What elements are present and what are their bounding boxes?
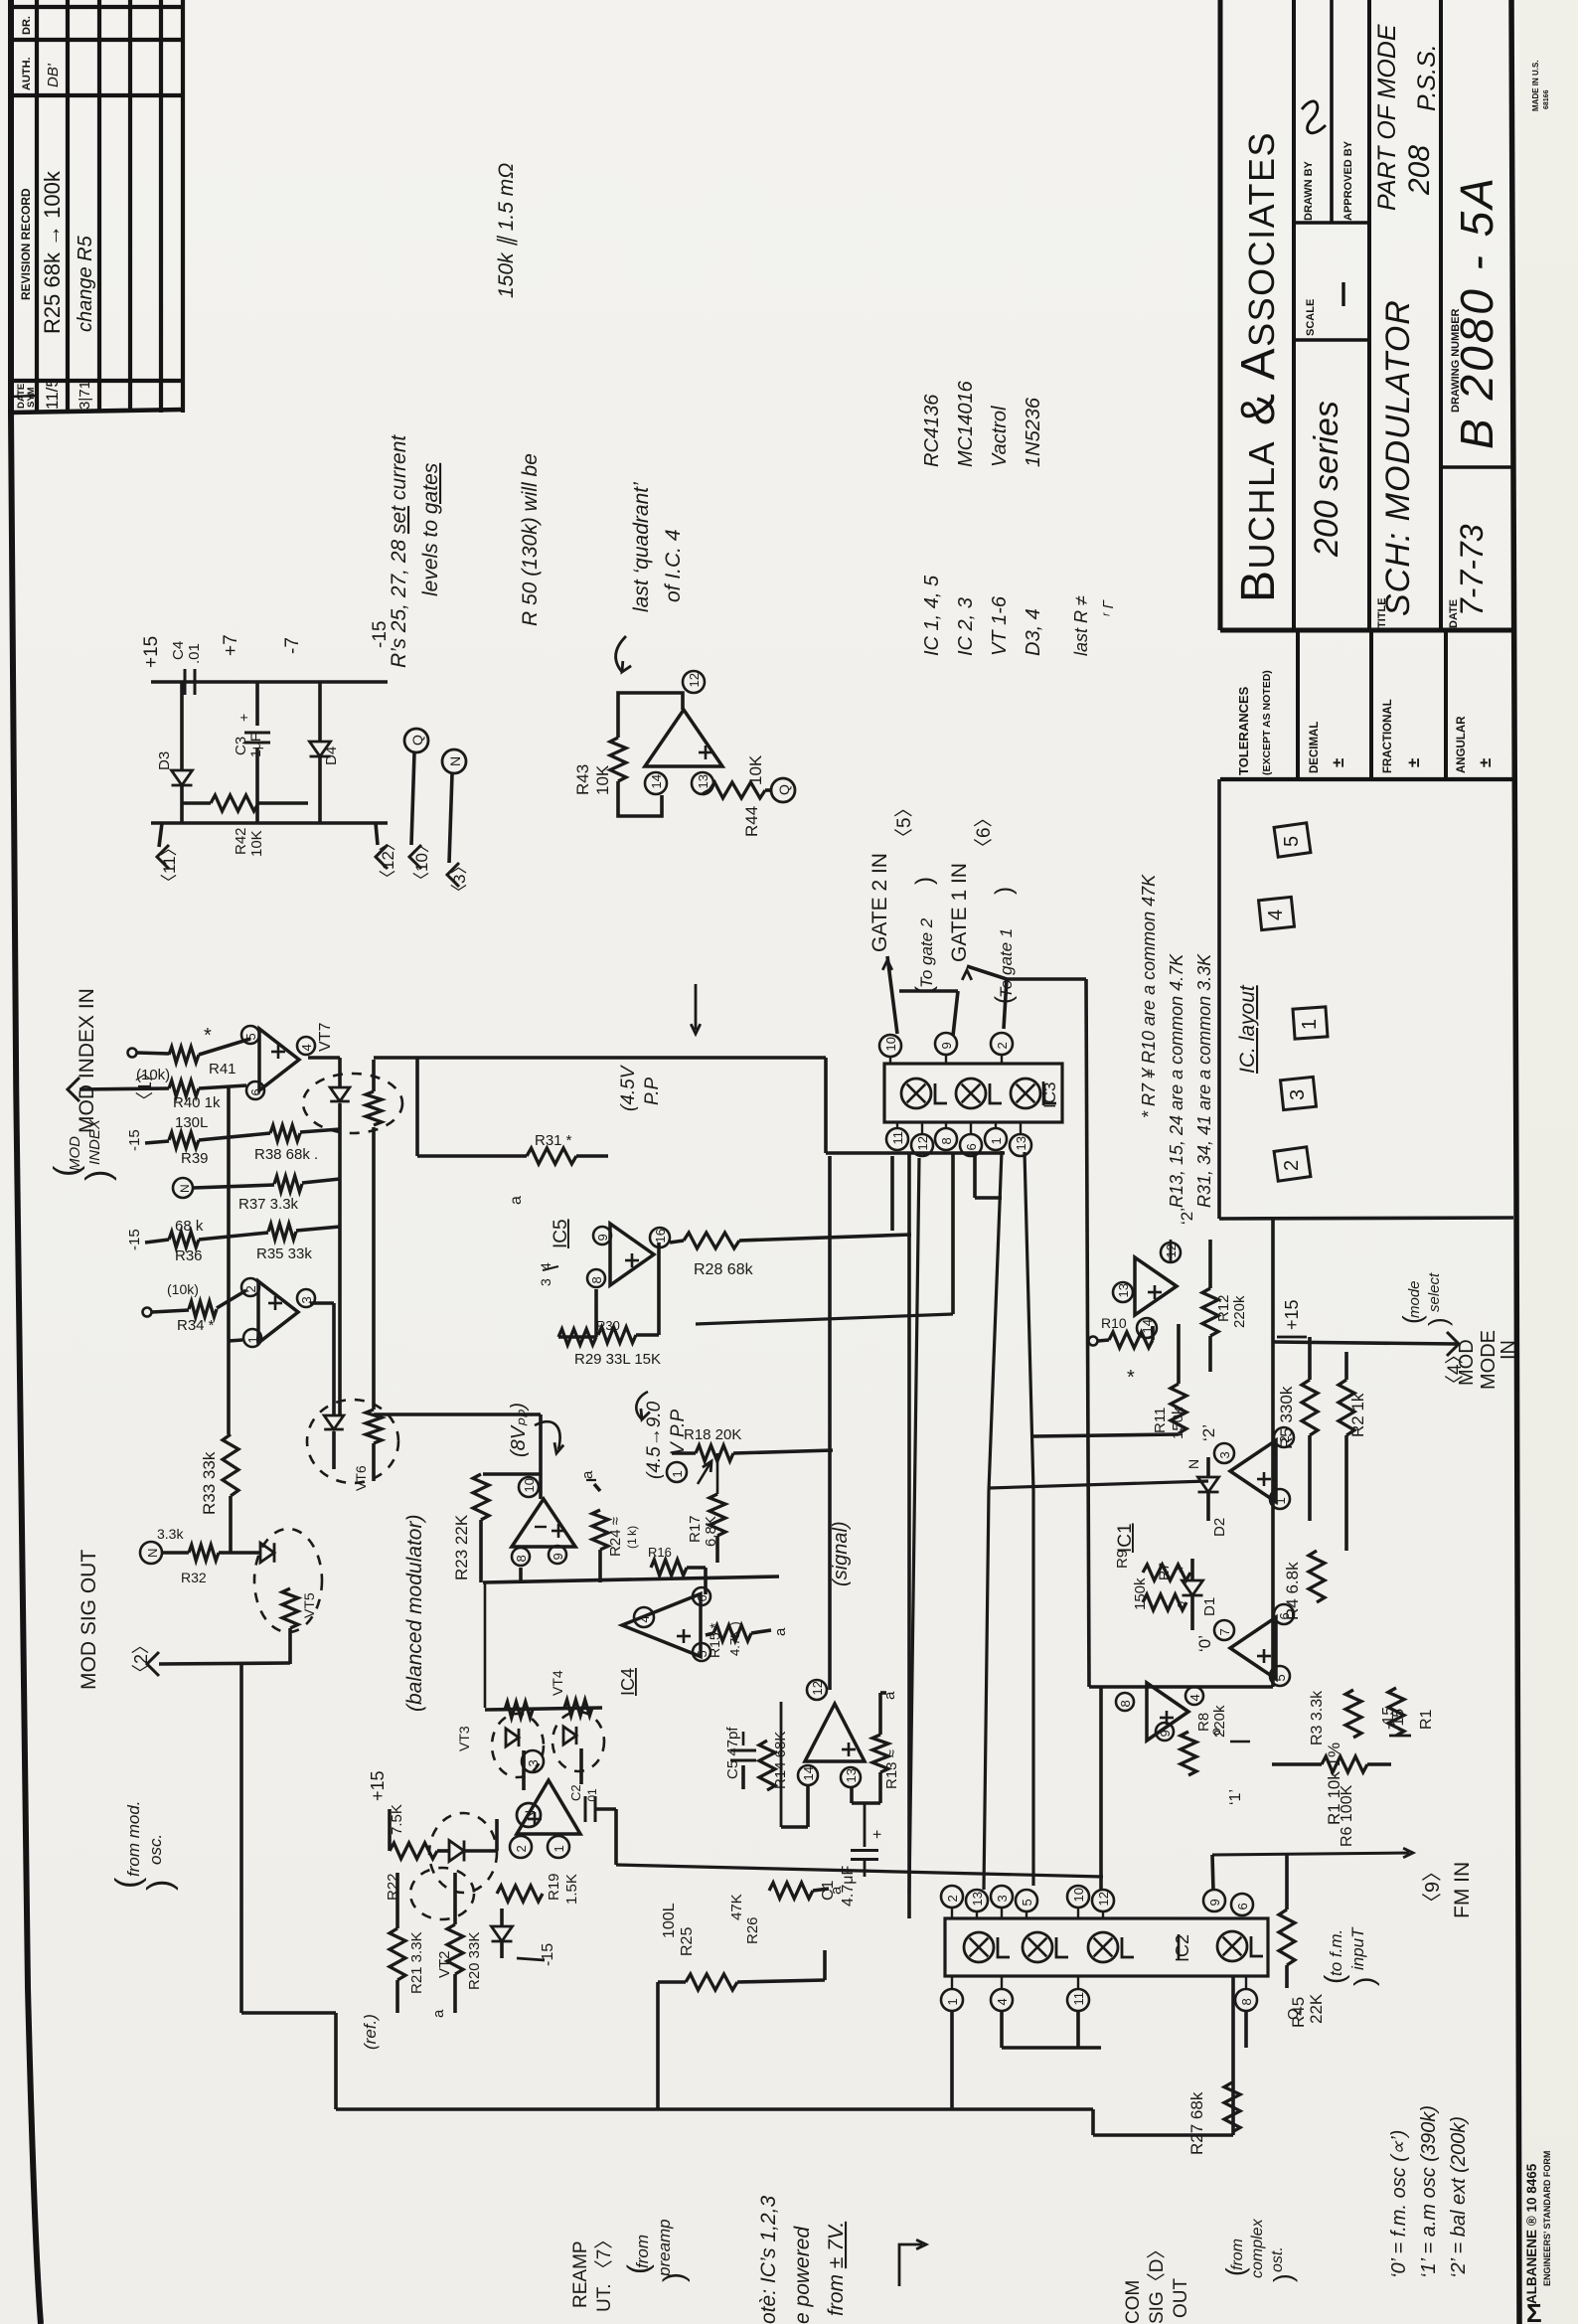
svg-text:D4: D4 [323,747,340,765]
svg-text:6: 6 [248,1088,263,1095]
svg-text:R25: R25 [679,1927,696,1956]
svg-text:3: 3 [1217,1451,1232,1458]
svg-text:R6 100K: R6 100K [1339,1784,1355,1847]
svg-text:4: 4 [1265,910,1287,920]
svg-text:22K: 22K [1307,1993,1326,2024]
svg-text:R20 33K: R20 33K [466,1932,483,1990]
svg-text:2: 2 [1281,1160,1303,1171]
svg-text:-15: -15 [540,1943,556,1966]
svg-text:-15: -15 [126,1229,143,1250]
svg-text:VT5: VT5 [301,1592,317,1618]
svg-text:‘0’: ‘0’ [1195,1635,1214,1652]
svg-text:R24 ≈: R24 ≈ [607,1517,624,1557]
svg-text:): ) [141,1880,179,1891]
svg-text:.01: .01 [585,1788,599,1805]
svg-text:〈2〉: 〈2〉 [131,1636,151,1682]
svg-text:R9: R9 [1114,1550,1131,1569]
svg-text:DR.: DR. [21,16,33,35]
svg-text:+: + [236,714,251,722]
svg-text:R40 1k: R40 1k [173,1094,221,1111]
svg-text:12: 12 [1096,1892,1111,1906]
svg-text:〈6〉: 〈6〉 [973,808,995,857]
svg-text:(ref.): (ref.) [361,2014,380,2050]
svg-text:ʳ Γ: ʳ Γ [1100,599,1117,616]
svg-text:(10k): (10k) [136,1067,170,1083]
svg-text:a: a [579,1470,596,1479]
svg-text:R3 3.3k: R3 3.3k [1309,1690,1326,1745]
svg-text:R18 20K: R18 20K [684,1426,741,1443]
svg-text:of I.C. 4: of I.C. 4 [662,529,685,602]
svg-text:D2: D2 [1211,1518,1228,1537]
svg-text:R13 ≈: R13 ≈ [883,1749,900,1789]
svg-text:a: a [828,1886,845,1895]
svg-text:*: * [1127,1367,1135,1389]
svg-text:AUTH.: AUTH. [21,57,33,90]
svg-text:IC1: IC1 [1115,1523,1136,1553]
svg-text:220k: 220k [1231,1295,1248,1328]
svg-text:4.7K ): 4.7K ) [727,1621,742,1656]
svg-text:6: 6 [1235,1903,1250,1909]
svg-text:‘1’ = a.m osc (390k): ‘1’ = a.m osc (390k) [1418,2105,1440,2278]
svg-text:13: 13 [696,774,710,788]
svg-text:R15 *: R15 * [707,1622,722,1658]
svg-text:3|71: 3|71 [77,381,93,410]
svg-text:±: ± [1404,758,1423,767]
svg-text:REVISION RECORD: REVISION RECORD [19,188,33,300]
svg-text:ANGULAR: ANGULAR [1456,716,1468,773]
svg-text:to f.m.: to f.m. [1327,1929,1345,1976]
svg-text:4: 4 [637,1615,652,1622]
svg-text:+15: +15 [1282,1299,1302,1330]
svg-text:10: 10 [522,1478,537,1492]
svg-text:(4.5V: (4.5V [618,1064,639,1111]
svg-text:‘2’ = bal ext (200k): ‘2’ = bal ext (200k) [1448,2116,1470,2278]
svg-text:1: 1 [1273,1497,1288,1504]
svg-text:1μF: 1μF [247,734,263,757]
svg-text:N: N [145,1549,160,1558]
svg-text:VT6: VT6 [353,1465,369,1491]
svg-text:4: 4 [995,1998,1010,2005]
svg-text:1.5K: 1.5K [563,1874,580,1905]
svg-text:IC4: IC4 [618,1668,638,1696]
svg-text:): ) [1423,1317,1453,1326]
svg-text:VT2: VT2 [436,1950,453,1978]
svg-text:change R5: change R5 [75,235,96,332]
svg-text:220k: 220k [1211,1705,1228,1738]
svg-text:+15: +15 [368,1770,388,1801]
svg-text:1: 1 [245,1336,260,1343]
svg-text:levels to gates: levels to gates [419,462,442,596]
svg-text:2: 2 [995,1042,1010,1049]
svg-text:100L: 100L [661,1903,678,1938]
svg-text:13: 13 [844,1768,859,1782]
svg-text:from: from [1229,2239,1246,2270]
svg-text:〈3〉: 〈3〉 [450,858,469,901]
svg-text:8: 8 [939,1137,954,1144]
svg-text:): ) [1268,2273,1298,2282]
svg-text:7: 7 [1217,1628,1232,1635]
svg-text:8: 8 [1239,1998,1254,2005]
svg-text:* R7 ¥ R10 are a common 47K: * R7 ¥ R10 are a common 47K [1139,874,1159,1118]
svg-text:D3: D3 [156,751,173,770]
svg-text:4: 4 [1187,1694,1202,1701]
svg-text:R31 *: R31 * [535,1132,572,1149]
svg-text:9: 9 [1207,1899,1222,1906]
svg-text:PART OF MODE: PART OF MODE [1373,24,1401,211]
svg-text:R7: R7 [1156,1563,1172,1580]
svg-text:5: 5 [243,1033,258,1040]
svg-text:): ) [991,887,1018,895]
svg-text:RC4136: RC4136 [921,394,943,467]
svg-text:13: 13 [970,1892,985,1906]
svg-text:DB': DB' [45,63,62,87]
svg-text:FRACTIONAL: FRACTIONAL [1382,699,1394,773]
svg-text:+: + [869,1830,886,1839]
svg-text:VT3: VT3 [456,1726,472,1751]
svg-text:IC 2, 3: IC 2, 3 [955,597,977,656]
svg-text:IC 1, 4, 5: IC 1, 4, 5 [921,575,943,656]
svg-text:3: 3 [995,1895,1010,1902]
svg-text:R39: R39 [181,1150,209,1167]
svg-text:R17: R17 [687,1515,704,1543]
svg-text:6: 6 [1277,1612,1292,1619]
svg-text:〈11〉: 〈11〉 [160,839,179,891]
svg-text:〈5〉: 〈5〉 [893,798,915,847]
svg-text:1: 1 [670,1470,685,1477]
svg-text:R21 3.3K: R21 3.3K [408,1931,425,1994]
svg-text:208: 208 [1403,145,1436,196]
svg-text:last R ≠: last R ≠ [1071,595,1091,656]
svg-text:7.5K: 7.5K [389,1804,405,1835]
svg-text:1: 1 [945,1998,960,2005]
svg-text:R13, 15, 24 are a common 4: R13, 15, 24 are a common 4.7K [1167,953,1186,1208]
svg-text:MC14016: MC14016 [955,380,977,467]
svg-text:1: 1 [989,1137,1004,1144]
svg-text:N: N [1185,1459,1201,1469]
svg-text:7-7-73: 7-7-73 [1454,524,1490,616]
svg-text:INDEX: INDEX [86,1118,103,1165]
svg-text:9: 9 [1158,1730,1173,1737]
svg-text:10: 10 [1071,1888,1086,1902]
svg-text:8: 8 [1118,1700,1133,1707]
svg-text:10K: 10K [593,764,612,795]
svg-text:last ‘quadrant’: last ‘quadrant’ [630,482,653,612]
svg-text:*: * [204,1025,212,1047]
svg-text:2: 2 [514,1845,529,1852]
svg-text:R34 *: R34 * [177,1317,215,1334]
svg-text:a: a [430,2009,447,2018]
svg-text:select: select [1426,1272,1443,1312]
svg-text:6: 6 [695,1594,710,1601]
svg-text:±: ± [1476,758,1495,767]
svg-text:a: a [508,1196,525,1205]
svg-text:12: 12 [915,1136,930,1150]
svg-text:2: 2 [1277,1435,1292,1442]
svg-text:R27 68k: R27 68k [1187,2091,1206,2155]
svg-text:MODE: MODE [1478,1330,1499,1390]
svg-text:GATE 2 IN: GATE 2 IN [868,853,891,952]
svg-text:To gate 1: To gate 1 [997,928,1016,998]
svg-text:SYM: SYM [26,387,37,408]
svg-text:R38 68k .: R38 68k . [254,1146,318,1163]
svg-text:Q: Q [409,735,425,746]
svg-text:R26: R26 [744,1916,761,1944]
svg-text:14: 14 [649,774,664,788]
svg-text:VT4: VT4 [550,1670,565,1696]
svg-text:UT. 〈7〉: UT. 〈7〉 [593,2231,615,2312]
svg-text:+15: +15 [141,636,162,668]
svg-text:SCH: MODULATOR: SCH: MODULATOR [1379,299,1417,616]
svg-text:‘2’: ‘2’ [1199,1424,1218,1441]
svg-text:a: a [881,1691,898,1700]
svg-text:R32: R32 [181,1570,207,1585]
svg-text:5: 5 [1020,1899,1034,1906]
svg-text:APPROVED BY: APPROVED BY [1342,140,1354,221]
svg-text:3: 3 [538,1278,553,1286]
svg-text:R’s 25, 27, 28 set current: R’s 25, 27, 28 set current [388,434,410,668]
svg-text:IC. layout: IC. layout [1236,984,1259,1074]
svg-text:R12: R12 [1215,1294,1232,1322]
svg-text:(1 k): (1 k) [625,1526,639,1549]
svg-text:47K: 47K [728,1894,745,1920]
svg-text:D3, 4: D3, 4 [1023,608,1044,656]
svg-text:R42: R42 [233,827,249,855]
svg-text:VT 1-6: VT 1-6 [989,595,1011,656]
svg-text:N: N [522,1810,538,1820]
svg-text:14: 14 [801,1766,816,1780]
svg-text:16: 16 [653,1229,668,1243]
svg-text:-15: -15 [126,1129,143,1151]
svg-text:R25 68k → 100k: R25 68k → 100k [40,170,65,334]
svg-text:COM: COM [1123,2280,1144,2324]
svg-text:5: 5 [1273,1674,1288,1681]
svg-text:12: 12 [687,673,702,687]
svg-text:‘0’ = f.m. osc (∝’): ‘0’ = f.m. osc (∝’) [1388,2130,1410,2278]
svg-text:R28 68k: R28 68k [694,1261,754,1278]
svg-text:13: 13 [1014,1136,1028,1150]
svg-text:(signal): (signal) [830,1521,852,1586]
svg-text:ALBANENE ® 10 8465: ALBANENE ® 10 8465 [1524,2163,1539,2304]
svg-text:-7: -7 [282,637,303,654]
svg-text:R29 33L 15K: R29 33L 15K [574,1351,661,1368]
svg-text:14: 14 [1140,1319,1155,1333]
svg-text:SIG〈D〉: SIG〈D〉 [1146,2241,1168,2324]
svg-text:200 series: 200 series [1308,401,1345,558]
svg-text:VT7: VT7 [317,1023,334,1052]
svg-text:R35 33k: R35 33k [256,1245,312,1262]
svg-text:e powered: e powered [791,2226,814,2324]
svg-text:1: 1 [1299,1019,1321,1030]
svg-text:.01: .01 [186,643,203,664]
svg-text:MADE IN U.S.: MADE IN U.S. [1531,60,1540,111]
svg-text:IC5: IC5 [551,1219,571,1248]
svg-text:MOD: MOD [67,1136,83,1171]
svg-text:4.7μF: 4.7μF [840,1866,857,1907]
svg-text:Q: Q [776,784,792,795]
svg-text:To gate 2: To gate 2 [917,917,936,988]
svg-text:〈12〉: 〈12〉 [379,834,397,887]
svg-text:8: 8 [514,1555,529,1562]
svg-text:〈9〉: 〈9〉 [1422,1862,1444,1912]
svg-text:R 50 (130k) will be: R 50 (130k) will be [519,453,542,626]
svg-text:R43: R43 [573,764,592,795]
svg-text:ost.: ost. [1269,2246,1286,2272]
svg-text:preamp: preamp [655,2219,674,2277]
svg-text:1: 1 [552,1845,566,1852]
svg-text:N: N [178,1184,192,1193]
svg-text:B 2080 - 5A: B 2080 - 5A [1451,175,1502,449]
svg-text:3: 3 [526,1759,541,1766]
svg-text:150k ∥ 1.5 mΩ: 150k ∥ 1.5 mΩ [495,163,518,298]
svg-text:C5 47pf: C5 47pf [724,1727,741,1779]
svg-text:R8: R8 [1195,1713,1212,1732]
svg-text:R37 3.3k: R37 3.3k [238,1196,299,1213]
svg-text:10: 10 [883,1037,898,1051]
svg-text:+7: +7 [221,634,241,656]
svg-text:P.P: P.P [642,1077,663,1105]
svg-text:OUT: OUT [1171,2278,1191,2319]
svg-text:inpuT: inpuT [1348,1926,1367,1970]
svg-text:*: * [1176,1567,1192,1573]
svg-text:Q: Q [1285,2008,1302,2020]
svg-text:11: 11 [890,1131,905,1145]
svg-text:3.3k: 3.3k [157,1526,184,1542]
svg-text:): ) [911,877,938,885]
svg-text:Σ: Σ [1526,2298,1542,2324]
svg-text:otè: IC’s 1,2,3: otè: IC’s 1,2,3 [757,2195,780,2324]
svg-text:1N5236: 1N5236 [1023,397,1044,467]
svg-text:R1: R1 [1418,1709,1435,1730]
svg-text:〈10〉: 〈10〉 [412,836,431,889]
svg-text:R31, 34, 41 are a common 3: R31, 34, 41 are a common 3.3K [1194,953,1214,1208]
svg-text:from ± 7V.: from ± 7V. [825,2222,848,2316]
svg-text:12: 12 [810,1681,825,1695]
svg-text:TOLERANCES: TOLERANCES [1236,686,1251,775]
svg-text:MOD SIG OUT: MOD SIG OUT [78,1550,100,1690]
svg-text:68166: 68166 [1543,89,1550,109]
svg-text:13: 13 [1116,1283,1131,1297]
svg-text:mode: mode [1406,1280,1423,1318]
svg-text:11/5: 11/5 [43,378,62,410]
svg-text:2: 2 [243,1285,258,1292]
svg-text:±: ± [1329,758,1347,767]
svg-text:R44: R44 [742,806,761,837]
svg-text:C4: C4 [170,641,187,660]
svg-text:3: 3 [1287,1089,1309,1100]
svg-text:IC2: IC2 [1173,1934,1192,1962]
svg-text:N: N [447,756,463,766]
svg-text:GATE 1 IN: GATE 1 IN [948,863,971,962]
svg-text:Vactrol: Vactrol [989,406,1011,467]
svg-text:9: 9 [595,1234,610,1241]
svg-text:2: 2 [945,1895,960,1902]
svg-text:BUCHLA & ASSOCIATES: BUCHLA & ASSOCIATES [1232,131,1285,602]
svg-text:R11: R11 [1152,1408,1169,1433]
svg-text:R19: R19 [546,1873,562,1901]
svg-text:(10k): (10k) [167,1281,199,1297]
svg-text:IN: IN [1498,1340,1519,1360]
svg-text:9: 9 [939,1042,954,1049]
svg-text:osc.: osc. [146,1834,165,1865]
svg-text:DRAWN BY: DRAWN BY [1303,160,1315,221]
svg-text:FM IN: FM IN [1451,1862,1474,1918]
svg-text:‘1’: ‘1’ [1227,1789,1244,1805]
svg-text:): ) [658,2272,691,2282]
svg-text:R10: R10 [1101,1315,1127,1331]
svg-text:complex: complex [1249,2218,1266,2278]
svg-text:6: 6 [964,1143,979,1150]
svg-text:ENGINEERS’ STANDARD FORM: ENGINEERS’ STANDARD FORM [1542,2151,1552,2286]
svg-text:D1: D1 [1201,1597,1218,1616]
svg-text:): ) [79,1170,117,1181]
svg-text:10K: 10K [746,754,765,785]
svg-text:8: 8 [589,1276,604,1283]
svg-text:-15: -15 [1390,1709,1407,1732]
svg-text:R23 22K: R23 22K [452,1514,471,1580]
svg-text:〈4〉: 〈4〉 [1444,1345,1466,1394]
svg-text:‘2’: ‘2’ [1178,1208,1196,1225]
svg-text:P.S.S.: P.S.S. [1413,44,1441,111]
svg-text:(balanced modulator): (balanced modulator) [403,1515,426,1712]
svg-text:11: 11 [1071,1992,1086,2006]
svg-text:R30: R30 [596,1318,620,1333]
svg-text:from: from [633,2235,652,2268]
svg-text:(8Vₚₚ): (8Vₚₚ) [508,1403,530,1457]
svg-text:R16: R16 [648,1545,672,1560]
svg-text:5: 5 [1281,836,1303,847]
svg-text:10K: 10K [248,830,265,857]
svg-text:4: 4 [299,1044,314,1051]
svg-text:DECIMAL: DECIMAL [1309,722,1321,773]
svg-text:from mod.: from mod. [124,1800,143,1877]
svg-text:R33 33k: R33 33k [200,1451,219,1515]
svg-text:MOD INDEX IN: MOD INDEX IN [76,988,98,1133]
svg-text:(EXCEPT AS NOTED): (EXCEPT AS NOTED) [1261,670,1273,775]
svg-text:R2 1k: R2 1k [1348,1393,1367,1437]
svg-text:a: a [772,1627,789,1636]
svg-text:): ) [1348,1977,1379,1986]
svg-text:R41: R41 [209,1061,237,1078]
svg-text:C2: C2 [568,1784,583,1801]
svg-text:R36: R36 [175,1247,203,1264]
svg-text:9: 9 [551,1553,565,1560]
svg-text:SCALE: SCALE [1305,299,1317,336]
svg-text:REAMP: REAMP [570,2241,591,2308]
